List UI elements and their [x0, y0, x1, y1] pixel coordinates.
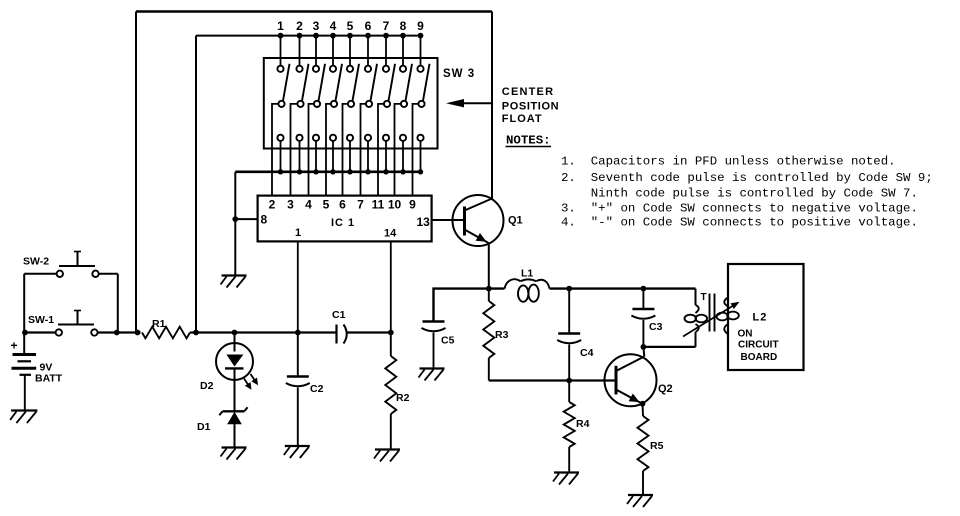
svg-text:SW-1: SW-1 — [28, 314, 54, 326]
switch SW3 section 4: pole contact — [331, 101, 337, 107]
svg-text:BOARD: BOARD — [741, 352, 778, 363]
switch SW3 section 9: lower contact — [417, 135, 423, 141]
ground (C2) — [285, 445, 310, 447]
switch SW3 section 2: arm — [302, 64, 309, 101]
switch SW3 box — [264, 58, 438, 149]
wire: SW3 section 5 pole to IC1 pin 6 — [343, 104, 348, 196]
svg-text:1: 1 — [295, 227, 301, 239]
node: rail junction — [193, 330, 199, 336]
switch SW3 section 3: arm — [319, 64, 326, 101]
node: SW-2 branch joins — [114, 330, 120, 336]
transformer T1 primary — [695, 289, 697, 305]
switch SW3 section 6: pole contact — [366, 101, 372, 107]
switch SW3 section 8: lower contact — [400, 135, 406, 141]
svg-text:T: T — [701, 292, 707, 303]
svg-text:5: 5 — [347, 19, 354, 33]
svg-text:1. Capacitors in PFD unless o: 1. Capacitors in PFD unless otherwise no… — [561, 155, 896, 169]
switch SW3 section 9: pole contact — [418, 101, 424, 107]
node: ground bus junction 1 — [278, 169, 283, 174]
svg-text:9: 9 — [417, 19, 424, 33]
switch SW3 section 8: arm — [406, 64, 413, 101]
node: C4 bottom / R4 — [566, 378, 572, 384]
node: terminal 6 on bus — [365, 33, 371, 39]
wire: outer loop top edge — [136, 10, 492, 12]
node: battery + / SW-1 — [22, 330, 28, 336]
ground (D1) — [222, 446, 247, 448]
svg-text:L2: L2 — [753, 312, 768, 324]
switch SW3 section 4: lower contact — [330, 135, 336, 141]
svg-text:C5: C5 — [441, 335, 455, 347]
svg-text:7: 7 — [383, 19, 390, 33]
svg-text:SW-2: SW-2 — [23, 256, 49, 268]
wire: IC1 pin 14 to R2 node — [390, 241, 392, 332]
svg-text:R2: R2 — [396, 392, 410, 404]
wire: IC1 pin 13 to Q1 base — [432, 219, 465, 221]
svg-text:2. Seventh code pulse is cont: 2. Seventh code pulse is controlled by C… — [561, 171, 933, 185]
svg-text:C1: C1 — [332, 309, 346, 321]
switch SW3 section 5: pole contact — [348, 101, 354, 107]
wire: ground bus under SW3 — [235, 171, 420, 174]
switch SW3 section 6: arm — [371, 64, 378, 101]
svg-text:7: 7 — [357, 198, 364, 212]
node: ground bus junction 4 — [330, 169, 335, 174]
wire: terminal 2 to SW3 contact — [299, 36, 301, 66]
capacitor C5 — [423, 320, 445, 323]
wire: battery + rail up to SW-2 — [23, 274, 25, 333]
switch SW3 section 8: top contact — [400, 66, 406, 72]
wire: terminal 1 to SW3 contact — [280, 36, 282, 66]
wire: SW3 section 1 lower contact to ground bus — [280, 141, 282, 172]
switch SW3 section 3: top contact — [313, 66, 319, 72]
wire: outer loop right rail (to Q1 collector) — [491, 12, 493, 199]
switch SW3 section 2: top contact — [296, 66, 302, 72]
node: terminal 3 on bus — [313, 33, 319, 39]
svg-text:4: 4 — [330, 19, 337, 33]
wire: left rail from terminal bus down to R1 node — [195, 36, 197, 333]
node: terminal 9 on bus — [418, 33, 424, 39]
ground (IC1 pin 8) — [222, 274, 247, 276]
node: terminal 7 on bus — [383, 33, 389, 39]
svg-text:D2: D2 — [200, 380, 214, 392]
ground (R2) — [375, 448, 400, 450]
wire: SW3 section 8 lower contact to ground bus — [402, 141, 404, 172]
svg-text:C4: C4 — [580, 347, 594, 359]
switch SW3 section 1: lower contact — [277, 135, 283, 141]
wire: terminal 8 to SW3 contact — [402, 36, 404, 66]
wire: SW3 section 4 lower contact to ground bus — [332, 141, 334, 172]
resistor R2 — [390, 333, 392, 357]
capacitor C4 — [568, 289, 570, 334]
wire: SW3 section 9 pole to IC1 pin 9 — [413, 104, 419, 196]
switch SW3 section 7: lower contact — [383, 135, 389, 141]
node: terminal 8 on bus — [400, 33, 406, 39]
wire: SW3 section 8 pole to IC1 pin 10 — [395, 104, 401, 196]
wire: outer loop left rail — [135, 12, 137, 333]
wire: SW3 section 3 pole to IC1 pin 4 — [309, 104, 314, 196]
node: C3 bottom / Q2 collector — [641, 344, 647, 350]
wire: terminal bus to code switch SW3 — [196, 35, 421, 37]
wire: SW3 section 5 lower contact to ground bus — [349, 141, 351, 172]
wire: terminal 5 to SW3 contact — [349, 36, 351, 66]
node: C2 / IC pin1 — [295, 330, 301, 336]
svg-text:11: 11 — [372, 198, 385, 212]
ground (C5) — [420, 367, 445, 369]
svg-text:Q2: Q2 — [658, 383, 673, 395]
switch SW3 section 9: arm — [423, 64, 430, 101]
svg-text:3. "+" on Code SW connects to: 3. "+" on Code SW connects to negative v… — [561, 202, 918, 216]
node: D2 top — [232, 330, 238, 336]
node: Q2 emitter — [640, 401, 646, 407]
switch SW3 section 3: pole contact — [314, 101, 320, 107]
wire: terminal 6 to SW3 contact — [367, 36, 369, 66]
svg-text:10: 10 — [388, 198, 402, 212]
svg-text:CIRCUIT: CIRCUIT — [738, 340, 779, 351]
svg-text:14: 14 — [384, 228, 397, 240]
svg-text:R4: R4 — [576, 418, 590, 430]
node: pin 8 junction — [232, 216, 238, 222]
ground (R5) — [628, 494, 653, 496]
inductor L2 box — [728, 264, 804, 370]
wire: L1 to T1 — [550, 287, 696, 289]
svg-text:D1: D1 — [197, 421, 211, 433]
svg-text:6: 6 — [365, 19, 372, 33]
LED D2 emission arrows — [244, 379, 250, 388]
svg-text:SW 3: SW 3 — [443, 68, 475, 80]
wire: pin 8 node down to ground — [234, 219, 236, 274]
wire: SW3 section 7 lower contact to ground bus — [385, 141, 387, 172]
node: terminal 4 on bus — [330, 33, 336, 39]
switch SW3 section 5: lower contact — [347, 135, 353, 141]
switch SW3 section 7: pole contact — [384, 101, 390, 107]
switch SW3 section 3: lower contact — [313, 135, 319, 141]
ground (battery) — [11, 409, 37, 411]
svg-text:4: 4 — [305, 198, 312, 212]
svg-text:R1: R1 — [152, 318, 166, 330]
node: ground bus junction 3 — [313, 169, 318, 174]
svg-text:C3: C3 — [649, 321, 663, 333]
svg-text:R3: R3 — [495, 329, 509, 341]
wire: SW3 section 1 pole to IC1 pin 2 — [272, 104, 278, 196]
svg-text:5: 5 — [323, 198, 330, 212]
wire: C5 corner to L1 — [434, 289, 505, 322]
node: Q1 emitter / R3 — [486, 286, 492, 292]
switch SW3 section 6: top contact — [365, 66, 371, 72]
resistor R1 — [142, 327, 190, 339]
wire: SW3 section 6 lower contact to ground bus — [367, 141, 369, 172]
inductor L1 — [505, 279, 521, 288]
node: ground bus junction 8 — [400, 169, 405, 174]
svg-text:13: 13 — [417, 215, 431, 229]
arrow: T1 tuning adjustment — [683, 305, 735, 337]
wire: Q2 collector node to T1 — [643, 346, 695, 348]
wire: SW3 section 3 lower contact to ground bus — [315, 141, 317, 172]
transformer T1 core — [709, 294, 711, 332]
resistor R4 — [568, 381, 570, 403]
switch SW3 section 6: lower contact — [365, 135, 371, 141]
wire: SW3 section 2 pole to IC1 pin 3 — [291, 104, 298, 196]
switch SW3 section 1: top contact — [277, 66, 283, 72]
wire: SW-1 to R1 — [98, 331, 141, 333]
switch SW3 section 2: lower contact — [296, 135, 302, 141]
node: ground bus junction 9 — [418, 169, 423, 174]
node: ground bus junction 7 — [383, 169, 388, 174]
svg-text:L1: L1 — [521, 268, 533, 280]
svg-text:9: 9 — [409, 198, 416, 212]
wire: terminal 3 to SW3 contact — [315, 36, 317, 66]
node: C3 top — [641, 286, 647, 292]
switch SW3 section 2: pole contact — [297, 101, 303, 107]
svg-text:BATT: BATT — [35, 373, 63, 385]
svg-text:IC 1: IC 1 — [331, 217, 355, 229]
resistor R3 — [488, 289, 490, 301]
wire: terminal 4 to SW3 contact — [332, 36, 334, 66]
LED D2 — [234, 333, 236, 352]
switch SW3 section 5: top contact — [347, 66, 353, 72]
svg-text:4. "-" on Code SW connects to: 4. "-" on Code SW connects to positive v… — [561, 216, 918, 230]
node: terminal 5 on bus — [347, 33, 353, 39]
wire: SW3 section 9 lower contact to ground bus — [420, 141, 422, 172]
wire: SW3 section 7 pole to IC1 pin 11 — [378, 104, 384, 196]
svg-text:2: 2 — [269, 198, 276, 212]
switch SW3 section 1: arm — [283, 64, 290, 101]
switch SW3 section 4: top contact — [330, 66, 336, 72]
node: left rail joins R1 wire — [135, 330, 141, 336]
switch SW3 section 7: arm — [389, 64, 396, 101]
switch SW3 section 1: pole contact — [278, 101, 284, 107]
svg-text:1: 1 — [277, 19, 284, 33]
wire: terminal 9 to SW3 contact — [420, 36, 422, 66]
svg-text:+: + — [11, 339, 18, 353]
switch SW3 section 5: arm — [353, 64, 360, 101]
wire: IC1 pin 1 to C2 node — [297, 241, 299, 332]
node: C4 top — [566, 286, 572, 292]
node: ground bus junction 6 — [365, 169, 370, 174]
svg-text:8: 8 — [261, 213, 268, 227]
svg-text:POSITION: POSITION — [502, 101, 559, 113]
svg-text:ON: ON — [738, 329, 753, 340]
wire: SW3 section 4 pole to IC1 pin 5 — [326, 104, 331, 196]
svg-text:FLOAT: FLOAT — [502, 113, 543, 125]
wire: terminal 7 to SW3 contact — [385, 36, 387, 66]
switch SW3 section 4: arm — [336, 64, 343, 101]
svg-text:Ninth code pulse is controlled: Ninth code pulse is controlled by Code S… — [561, 187, 918, 201]
wire: R1 to C1 — [190, 331, 337, 333]
svg-text:6: 6 — [339, 198, 346, 212]
svg-text:NOTES:: NOTES: — [506, 134, 551, 148]
capacitor C3 — [642, 289, 644, 309]
zener diode D1 — [234, 380, 236, 411]
wire: SW3 section 6 pole to IC1 pin 7 — [361, 104, 366, 196]
resistor R5 — [642, 404, 645, 416]
svg-text:CENTER: CENTER — [502, 86, 554, 98]
node: terminal 1 on bus — [278, 33, 284, 39]
transformer T1 secondary — [724, 298, 728, 307]
arrow: center position float pointer — [450, 102, 492, 104]
wire: R3 to Q2 base — [489, 379, 616, 381]
node: ground bus junction 2 — [297, 169, 302, 174]
wire: junction to IC1 pin 8 — [235, 218, 257, 220]
switch SW3 section 8: pole contact — [401, 101, 407, 107]
wire: SW3 section 2 lower contact to ground bus — [299, 141, 301, 172]
svg-text:3: 3 — [313, 19, 320, 33]
wire: SW-2 to SW-1 node — [117, 274, 119, 333]
node: terminal 2 on bus — [297, 33, 303, 39]
svg-text:3: 3 — [287, 198, 294, 212]
svg-text:R5: R5 — [650, 440, 664, 452]
switch SW3 section 7: top contact — [383, 66, 389, 72]
svg-text:2: 2 — [296, 19, 303, 33]
node: R2 / IC pin 14 — [388, 330, 394, 336]
IC U1 (IC 1) box — [258, 196, 432, 242]
wire: ground bus down to IC1 pin 8 node — [234, 172, 236, 219]
transistor Q2 — [605, 354, 657, 406]
transistor Q1 — [453, 195, 504, 246]
svg-text:C2: C2 — [310, 383, 324, 395]
node: ground bus junction 5 — [347, 169, 352, 174]
capacitor C2 — [297, 333, 299, 377]
svg-text:8: 8 — [400, 19, 407, 33]
svg-text:Q1: Q1 — [508, 215, 523, 227]
wire: Q1 emitter down to tank node — [488, 245, 490, 289]
ground (R4) — [554, 471, 579, 473]
switch SW3 section 9: top contact — [417, 66, 423, 72]
